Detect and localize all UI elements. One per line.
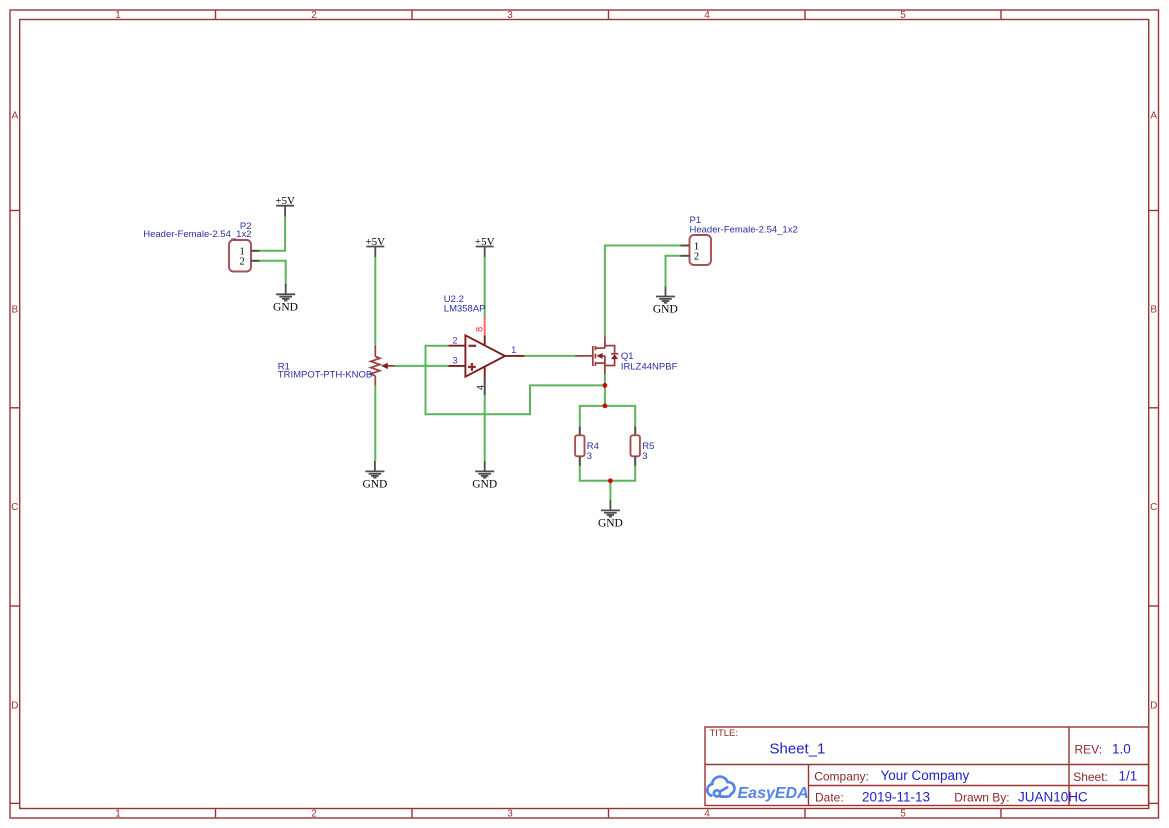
svg-text:GND: GND [273, 302, 298, 314]
svg-text:Sheet:: Sheet: [1073, 770, 1108, 784]
svg-text:1.0: 1.0 [1112, 741, 1131, 756]
ground (R1 branch) [365, 461, 384, 478]
svg-text:Company:: Company: [814, 769, 869, 783]
ruler ticks left [10, 211, 20, 804]
wire Q1 source down [604, 375, 606, 406]
svg-text:3: 3 [507, 808, 513, 819]
wire +5V to op-amp pin8 [484, 257, 486, 316]
svg-text:TITLE:: TITLE: [710, 728, 739, 739]
op-amp minus mark [468, 345, 476, 347]
op-amp U2.2 pin8 highlighted segment [484, 316, 486, 335]
svg-text:3: 3 [507, 10, 513, 21]
wire resistor top rail [580, 406, 635, 427]
svg-text:1: 1 [511, 345, 516, 355]
wire P2 pin2 to GND [260, 261, 286, 286]
power flag +5V (P2 branch) [275, 195, 295, 216]
svg-text:1: 1 [115, 808, 121, 819]
svg-text:A: A [1150, 111, 1157, 122]
Q1 gate bar [592, 346, 594, 366]
svg-text:2: 2 [240, 256, 245, 267]
svg-text:IRLZ44NPBF: IRLZ44NPBF [621, 361, 678, 372]
Q1 drain stem [604, 336, 606, 348]
svg-text:D: D [1150, 701, 1157, 712]
svg-text:Sheet_1: Sheet_1 [770, 741, 826, 758]
Q1 body diode [605, 346, 618, 366]
wire op-amp pin4 to GND [484, 395, 486, 461]
svg-text:8: 8 [475, 327, 485, 332]
power flag +5V (op-amp branch) [475, 236, 495, 257]
op-amp output pin1 stub [505, 355, 525, 357]
svg-text:5: 5 [900, 808, 906, 819]
svg-text:3: 3 [642, 451, 647, 462]
op-amp pin3 stub [448, 365, 465, 367]
svg-text:4: 4 [704, 10, 710, 21]
wire resistor bottom rail [580, 466, 635, 481]
transistor Q1 IRLZ44NPBF [575, 336, 618, 374]
ground (P2 branch) [276, 284, 295, 301]
svg-text:B: B [11, 305, 18, 316]
ruler row letters right [1150, 111, 1157, 712]
svg-text:JUAN10HC: JUAN10HC [1018, 789, 1088, 804]
svg-text:4: 4 [476, 385, 486, 390]
title block frame [705, 727, 1149, 806]
junction node bottom rail [608, 478, 613, 483]
svg-text:GND: GND [598, 518, 623, 530]
ground (R4 R5 branch) [601, 500, 620, 517]
svg-text:C: C [11, 502, 18, 513]
wire +5V to R1 top [374, 257, 376, 345]
wire op-amp output to Q1 gate [525, 355, 575, 357]
ruler column numbers top [115, 10, 906, 21]
R1 wiper arrow [383, 365, 395, 367]
op-amp pin2 stub [448, 345, 465, 347]
svg-text:2: 2 [311, 808, 317, 819]
wire P1 pin2 to GND [666, 256, 681, 286]
svg-text:A: A [11, 111, 18, 122]
svg-text:TRIMPOT-PTH-KNOB: TRIMPOT-PTH-KNOB [278, 369, 372, 380]
svg-text:LM358AP: LM358AP [444, 303, 486, 314]
wire R1 wiper to op-amp pin3 [395, 365, 448, 367]
connector P2 [229, 240, 260, 272]
junction node top rail [603, 404, 608, 409]
svg-text:2: 2 [694, 251, 699, 262]
wire P1 pin1 to Q1 drain [605, 246, 681, 337]
wire bottom rail to GND [609, 481, 611, 500]
svg-text:2: 2 [453, 335, 458, 345]
power flag +5V (R1 branch) [365, 236, 385, 257]
ruler column numbers bottom [115, 808, 906, 819]
wire +5V to P2 pin1 [260, 217, 286, 251]
Q1 gate pin [575, 355, 593, 357]
svg-text:Header-Female-2.54_1x2: Header-Female-2.54_1x2 [143, 229, 251, 240]
svg-text:EasyEDA: EasyEDA [738, 785, 809, 802]
svg-text:1/1: 1/1 [1119, 769, 1138, 784]
resistor R5 [631, 427, 640, 466]
svg-text:1: 1 [115, 10, 121, 21]
op-amp U2.2 LM358AP [448, 335, 524, 395]
EasyEDA logo cloud [707, 777, 734, 797]
connector P1 [680, 235, 711, 265]
Q1 channel segments [594, 346, 596, 350]
trimpot R1 [371, 346, 396, 386]
svg-text:GND: GND [472, 478, 497, 490]
ruler row letters left [11, 111, 18, 712]
svg-text:2019-11-13: 2019-11-13 [862, 789, 930, 804]
svg-text:C: C [1150, 502, 1157, 513]
svg-text:Date:: Date: [815, 791, 844, 805]
svg-text:Header-Female-2.54_1x2: Header-Female-2.54_1x2 [690, 225, 798, 236]
svg-text:GND: GND [362, 478, 387, 490]
svg-text:Drawn By:: Drawn By: [954, 791, 1009, 805]
Q1 source stem [604, 356, 606, 375]
ruler ticks top [216, 10, 1002, 20]
svg-text:4: 4 [704, 808, 710, 819]
svg-text:3: 3 [453, 356, 458, 366]
svg-text:3: 3 [587, 451, 592, 462]
svg-text:REV:: REV: [1075, 742, 1103, 756]
wire R1 bottom to GND [374, 386, 376, 461]
svg-text:Your Company: Your Company [881, 768, 970, 783]
svg-text:GND: GND [653, 303, 678, 315]
ruler ticks bottom [216, 809, 1002, 819]
ground (op-amp branch) [475, 461, 494, 478]
resistor R4 [575, 427, 584, 466]
ruler ticks right [1149, 211, 1159, 804]
svg-text:5: 5 [900, 10, 906, 21]
ground (P1 branch) [656, 286, 675, 303]
svg-text:B: B [1150, 305, 1157, 316]
op-amp plus mark [468, 366, 476, 368]
svg-text:D: D [11, 701, 18, 712]
Q1 body arrow [596, 353, 602, 359]
wire feedback pin2 loop [426, 346, 604, 415]
svg-text:2: 2 [311, 10, 317, 21]
junction node Q1 source / feedback [603, 383, 608, 388]
